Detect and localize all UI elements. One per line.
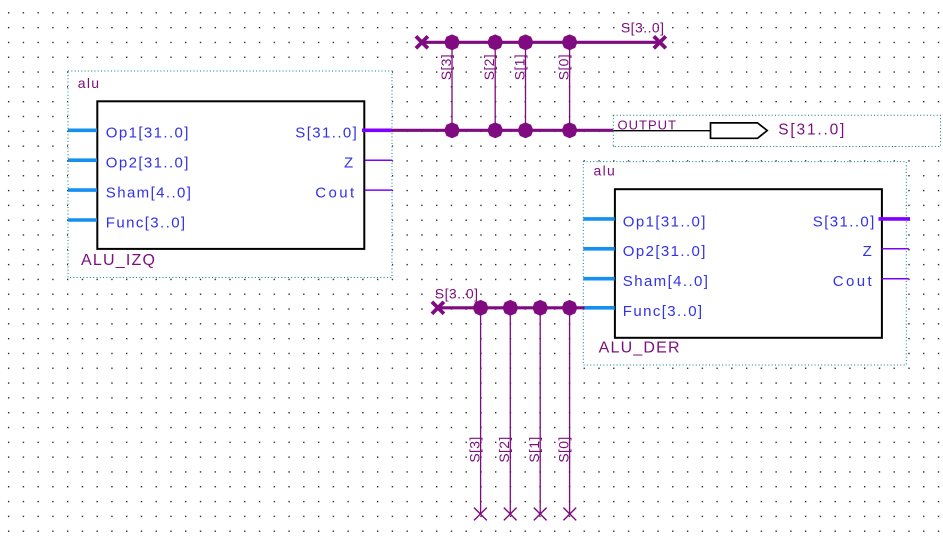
junction on lower bus at S[3] tap xyxy=(473,300,489,316)
svg-text:S[1]: S[1] xyxy=(511,54,527,80)
bus S[3..0] lower horizontal segment xyxy=(438,306,585,309)
connection X at bottom of S[2] tap xyxy=(504,508,517,521)
pin Func[3..0] of ALU_DER (connected to bus S[3..0]) xyxy=(584,303,704,320)
svg-text:Cout: Cout xyxy=(315,185,356,202)
svg-text:S[3]: S[3] xyxy=(438,54,454,80)
junction on top bus at S[3] tap xyxy=(444,34,460,50)
pin Func[3..0] of ALU_IZQ xyxy=(68,214,187,231)
pin S[31..0] output of ALU_DER xyxy=(813,213,910,230)
lead line of output connector xyxy=(613,130,710,132)
connection X at left end of top bus xyxy=(416,36,428,48)
svg-text:Op1[31..0]: Op1[31..0] xyxy=(623,213,707,230)
pin S[31..0] output of ALU_IZQ xyxy=(295,125,392,142)
wire tap S[2] vertical (top group) xyxy=(494,42,496,130)
symbol ALU_IZQ body xyxy=(97,101,364,249)
wire tap S[0] vertical (bottom group) xyxy=(569,308,571,514)
svg-text:alu: alu xyxy=(78,75,101,91)
symbol ALU_DER selection boundary xyxy=(583,162,906,365)
svg-text:Op2[31..0]: Op2[31..0] xyxy=(106,155,190,172)
pin Cout output of ALU_IZQ xyxy=(315,185,392,202)
pin Sham[4..0] of ALU_DER xyxy=(583,273,709,290)
junction on top bus at S[0] tap xyxy=(562,34,578,50)
junction on S[31..0] wire at S[1] tap xyxy=(518,122,534,138)
junction on S[31..0] wire at S[2] tap xyxy=(487,122,503,138)
svg-text:Sham[4..0]: Sham[4..0] xyxy=(623,273,710,290)
pin Op2[31..0] of ALU_IZQ xyxy=(68,155,190,172)
svg-text:S[31..0]: S[31..0] xyxy=(778,122,846,139)
connection X at bottom of S[0] tap xyxy=(563,508,576,521)
pin Op1[31..0] of ALU_IZQ xyxy=(68,125,190,142)
pin Z output of ALU_DER xyxy=(863,243,909,260)
svg-text:alu: alu xyxy=(594,163,617,179)
junction on top bus at S[1] tap xyxy=(518,34,534,50)
pin Op1[31..0] of ALU_DER xyxy=(583,213,707,230)
svg-text:S[1]: S[1] xyxy=(526,436,542,462)
svg-text:S[2]: S[2] xyxy=(496,436,512,462)
svg-text:S[31..0]: S[31..0] xyxy=(295,125,358,142)
junction on lower bus at S[1] tap xyxy=(532,300,548,316)
svg-text:S[0]: S[0] xyxy=(555,54,571,80)
junction on lower bus at S[2] tap xyxy=(502,300,518,316)
junction on S[31..0] wire at S[3] tap xyxy=(444,122,460,138)
pin Cout output of ALU_DER xyxy=(833,273,909,290)
junction on top bus at S[2] tap xyxy=(487,34,503,50)
wire tap S[3] vertical (top group) xyxy=(451,42,453,130)
svg-text:Op1[31..0]: Op1[31..0] xyxy=(106,125,190,142)
svg-text:Sham[4..0]: Sham[4..0] xyxy=(106,185,193,202)
svg-text:Z: Z xyxy=(344,155,355,172)
pin Z output of ALU_IZQ xyxy=(344,155,392,172)
wire tap S[3] vertical (bottom group) xyxy=(480,308,482,514)
svg-text:Func[3..0]: Func[3..0] xyxy=(623,303,704,320)
symbol ALU_IZQ selection boundary xyxy=(68,71,392,278)
bus S[3..0] top horizontal segment xyxy=(422,41,660,44)
svg-text:S[3]: S[3] xyxy=(467,436,483,462)
bus wire S[31..0] from ALU_IZQ to OUTPUT symbol xyxy=(392,129,613,132)
svg-text:ALU_DER: ALU_DER xyxy=(599,340,681,357)
svg-text:S[31..0]: S[31..0] xyxy=(813,213,876,230)
svg-text:Cout: Cout xyxy=(833,273,874,290)
svg-text:Z: Z xyxy=(863,243,874,260)
wire tap S[2] vertical (bottom group) xyxy=(509,308,511,514)
svg-text:Op2[31..0]: Op2[31..0] xyxy=(623,243,707,260)
junction on lower bus at S[0] tap xyxy=(562,300,578,316)
svg-text:Func[3..0]: Func[3..0] xyxy=(106,214,187,231)
svg-text:S[0]: S[0] xyxy=(556,436,572,462)
connection X at left end of lower bus xyxy=(432,302,444,314)
junction on S[31..0] wire at S[0] tap xyxy=(562,122,578,138)
connection X at bottom of S[1] tap xyxy=(534,508,547,521)
svg-text:S[2]: S[2] xyxy=(481,54,497,80)
output pin arrow shape xyxy=(711,123,768,138)
symbol ALU_DER body xyxy=(615,189,882,338)
pin Op2[31..0] of ALU_DER xyxy=(583,243,707,260)
wire tap S[1] vertical (top group) xyxy=(525,42,527,130)
wire tap S[1] vertical (bottom group) xyxy=(539,308,541,514)
connection X at bottom of S[3] tap xyxy=(474,508,487,521)
output connector OUTPUT S[31..0] selection boundary xyxy=(613,115,940,146)
wire tap S[0] vertical (top group) xyxy=(569,42,571,130)
pin Sham[4..0] of ALU_IZQ xyxy=(68,185,192,202)
svg-text:S[3..0]: S[3..0] xyxy=(435,286,479,302)
connection X at right end of top bus xyxy=(654,36,666,48)
svg-text:ALU_IZQ: ALU_IZQ xyxy=(81,252,156,269)
svg-text:S[3..0]: S[3..0] xyxy=(621,20,665,36)
